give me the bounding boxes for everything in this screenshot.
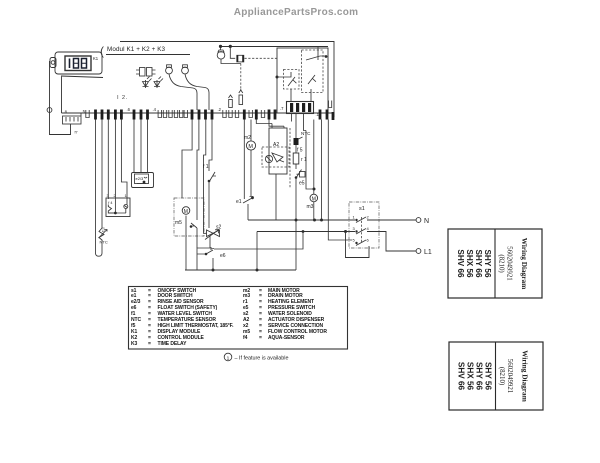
svg-text:4: 4 [367, 226, 370, 231]
wire relay internal 1 [277, 72, 291, 102]
capacitor C1 [166, 65, 197, 110]
title block 1 model list [456, 249, 492, 278]
crystal component [230, 46, 244, 61]
dashed service boundary [289, 128, 291, 188]
label .8 [64, 110, 68, 115]
f4 pin labels [107, 194, 127, 198]
label t2 [117, 95, 128, 101]
high limit thermostat f5 [294, 114, 303, 154]
rinse aid sensor e2/3 box [132, 173, 154, 188]
component block (2x2 grid) inside module [136, 68, 156, 77]
node circle on left wire [47, 108, 52, 113]
module K2 box [61, 76, 334, 113]
svg-text:K1: K1 [93, 56, 99, 61]
svg-text:SHV 66: SHV 66 [456, 249, 465, 278]
s1 link dashes [361, 217, 363, 243]
wire relay internal 2 [311, 47, 318, 102]
wire s2 feed [204, 120, 206, 230]
svg-text:SHX 56: SHX 56 [465, 249, 474, 278]
svg-text:2: 2 [367, 215, 370, 220]
title block 2 [449, 342, 543, 410]
svg-text:I 2.: I 2. [117, 95, 128, 101]
svg-text:3: 3 [353, 226, 356, 231]
pin row labels [127, 107, 320, 117]
display module K1 [55, 52, 102, 74]
s1 contact 5-6 [353, 238, 370, 246]
svg-text:SHV 66: SHV 66 [457, 362, 466, 391]
wire right column 1 [321, 120, 323, 221]
svg-text:(8210): (8210) [498, 367, 505, 385]
s1 contact 3-4 [353, 226, 370, 234]
door switch e1 [236, 120, 254, 221]
svg-text:1: 1 [353, 215, 356, 220]
relay K3a dotted box [284, 70, 300, 90]
label .5 [82, 109, 86, 114]
legend text right column codes [243, 289, 250, 343]
title block 1 [448, 229, 542, 298]
pressure switch e5 [295, 164, 305, 270]
svg-text:m5: m5 [175, 220, 182, 226]
heating element r1 [293, 145, 307, 164]
svg-text:– If feature is available: – If feature is available [235, 356, 289, 362]
wire bus left verticals [96, 120, 148, 254]
svg-text:L1: L1 [424, 249, 432, 256]
svg-text:.7: .7 [280, 106, 284, 111]
s1 loop wire [346, 232, 370, 258]
Modul bracket and label [100, 44, 190, 58]
NTC lead joint [96, 241, 103, 257]
svg-text:(: ( [100, 44, 104, 58]
display digits 888 [70, 59, 87, 69]
svg-text:1: 1 [227, 355, 230, 361]
fuse F2 above pin row [239, 89, 243, 105]
title block 1 text wiring diagram [498, 238, 530, 290]
service column label NTC [301, 131, 311, 136]
pin row open pins [86, 101, 332, 118]
svg-text:3: 3 [107, 194, 109, 198]
svg-text:SHY 66: SHY 66 [474, 249, 483, 278]
float switch e6 [197, 231, 303, 259]
rail N [248, 219, 416, 222]
LED D1 [143, 77, 152, 89]
buzzer component on top rail [217, 46, 241, 63]
svg-text:SHX 56: SHX 56 [466, 362, 475, 391]
svg-text:.4: .4 [153, 107, 157, 112]
wire m5 leads [182, 120, 199, 199]
title block 2 model list [457, 362, 493, 391]
water level switch f1 [203, 120, 216, 229]
water solenoid s2 [197, 225, 222, 271]
svg-text:NTC: NTC [100, 240, 108, 245]
legend box [129, 287, 348, 350]
svg-text:SHY 66: SHY 66 [475, 362, 484, 391]
svg-text:SHY 56: SHY 56 [483, 249, 492, 278]
svg-text:f 4: f 4 [108, 201, 112, 205]
svg-text:AppliancePartsPros.com: AppliancePartsPros.com [234, 7, 359, 18]
top rail line B [219, 46, 328, 48]
fuse F1 above pin row [229, 95, 233, 108]
rail 2 [257, 230, 381, 233]
wire from display down left side [50, 61, 71, 135]
svg-text:N: N [424, 218, 429, 225]
svg-text:2: 2 [114, 194, 116, 198]
terminal L1 [416, 249, 432, 256]
svg-text:e2/3: e2/3 [136, 176, 145, 181]
flow control motor m5 box [174, 198, 204, 270]
junction dot A [219, 45, 222, 48]
wire bus right jogs [256, 114, 306, 131]
wire to L1 [381, 232, 416, 252]
svg-text:M: M [184, 209, 188, 215]
svg-text:.8: .8 [64, 110, 68, 115]
relay switch top [306, 55, 327, 60]
display left connector nub [50, 58, 56, 68]
svg-text:1: 1 [125, 194, 127, 198]
header logo AppliancePartsPros.com [234, 7, 359, 18]
bottom rail low [185, 232, 296, 272]
capacitor C2 [182, 65, 209, 110]
main motor m2 [244, 120, 256, 197]
pin row black pins [94, 110, 334, 121]
title block 2 text wiring diagram [498, 350, 530, 402]
svg-text:.2: .2 [218, 107, 222, 112]
on/off switch s1 box [349, 202, 379, 248]
svg-text:M: M [312, 196, 316, 202]
legend text left column codes [131, 289, 141, 349]
svg-text:5602049921: 5602049921 [506, 359, 513, 394]
top rail line A [120, 42, 334, 118]
connector block stubs [291, 114, 293, 122]
svg-text:5602049921: 5602049921 [506, 246, 513, 281]
terminal N [416, 218, 429, 225]
svg-text:.6: .6 [127, 107, 131, 112]
connector x7 (1111) below module left [63, 113, 82, 135]
svg-text:M: M [248, 144, 253, 150]
svg-text:f10: f10 [102, 227, 106, 232]
junction dot B [229, 45, 232, 48]
svg-text:f7: f7 [75, 131, 78, 135]
svg-text:e6: e6 [220, 253, 226, 259]
svg-text:5: 5 [353, 238, 356, 243]
svg-text:e5: e5 [299, 181, 305, 187]
thermistor NTC [99, 227, 108, 244]
drain motor m3 [306, 120, 318, 221]
svg-text:SHY 56: SHY 56 [484, 362, 493, 391]
aqua-sensor f4 box [106, 198, 130, 217]
footnote: if feature is available [224, 353, 288, 361]
svg-text:m2: m2 [244, 135, 251, 141]
s1 contact 1-2 [353, 215, 370, 223]
legend text right column equals [259, 289, 262, 343]
legend text left column descriptions [158, 289, 234, 349]
svg-text:m3: m3 [307, 204, 314, 210]
relay section box [277, 48, 328, 113]
legend text left column equals [148, 289, 151, 349]
svg-text:Wiring Diagram: Wiring Diagram [521, 350, 530, 402]
dashed wire from crystal to relay box [245, 57, 278, 59]
LED D2 [154, 77, 163, 89]
svg-text:Wiring Diagram: Wiring Diagram [520, 238, 529, 290]
svg-text:e1: e1 [236, 199, 242, 205]
svg-text:f 1: f 1 [203, 164, 209, 170]
dashed wire down from crystal [240, 64, 242, 89]
svg-text:6: 6 [367, 238, 370, 243]
actuator dispenser A2 [262, 124, 289, 221]
relay K3b dotted box [302, 50, 324, 93]
wire right column 2 [328, 120, 352, 241]
svg-text:Modul K1 + K2 + K3: Modul K1 + K2 + K3 [107, 46, 166, 53]
connector block x7 [280, 102, 314, 114]
svg-text:s1: s1 [359, 206, 365, 212]
legend text right column descriptions [268, 289, 327, 343]
junction dot C [276, 76, 279, 79]
svg-text:(8210): (8210) [498, 254, 505, 272]
